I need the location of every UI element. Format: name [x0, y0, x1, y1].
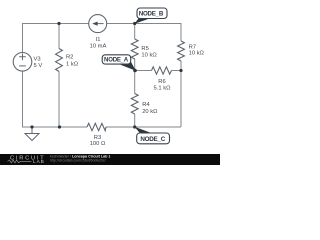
svg-text:NODE_A: NODE_A: [104, 57, 129, 64]
junction bottom R2 tap: [58, 125, 61, 128]
wire R2 branch bottom lead: [58, 72, 60, 128]
svg-text:LAB: LAB: [33, 159, 45, 165]
wire top from I1 to R7 branch: [107, 23, 181, 25]
footer bar: [0, 154, 220, 165]
svg-text:R7: R7: [189, 44, 196, 50]
svg-text:5.1 kΩ: 5.1 kΩ: [154, 86, 172, 92]
label R2 1 kOhm: [66, 54, 79, 67]
svg-text:10 mA: 10 mA: [90, 44, 107, 50]
label V3 5 V: [34, 56, 43, 69]
svg-text:R4: R4: [142, 102, 150, 108]
wire R7 to junction and down to bottom: [180, 61, 182, 127]
node A flag: [102, 55, 136, 71]
svg-text:10 kΩ: 10 kΩ: [189, 51, 205, 57]
label R6 5.1 kOhm: [154, 79, 172, 92]
wire left branch V3 top lead: [22, 23, 24, 52]
svg-text:R2: R2: [66, 54, 73, 60]
junction node B tap: [133, 22, 136, 25]
svg-text:100 Ω: 100 Ω: [90, 141, 106, 147]
wire R4 top lead: [134, 71, 136, 94]
svg-text:10 kΩ: 10 kΩ: [141, 52, 157, 58]
svg-text:1 kΩ: 1 kΩ: [66, 61, 79, 67]
svg-text:NODE_B: NODE_B: [139, 11, 164, 18]
svg-text:R6: R6: [158, 79, 165, 85]
resistor R6: [152, 67, 172, 74]
wire R2 branch top lead: [58, 24, 60, 49]
wire R4 bottom lead: [134, 114, 136, 127]
junction R6-R7: [179, 69, 182, 72]
svg-text:20 kΩ: 20 kΩ: [142, 109, 158, 115]
node B flag: [135, 8, 168, 24]
node C flag: [135, 127, 170, 144]
label R7 10 kOhm: [189, 44, 205, 56]
junction dot top R2 tap: [57, 22, 60, 25]
wire R5 to node A junction: [134, 59, 136, 71]
wire left branch V3 bottom lead: [22, 71, 24, 127]
wire top from V3 to I1: [23, 23, 89, 25]
label I1 10 mA: [90, 37, 107, 49]
svg-text:5 V: 5 V: [34, 63, 43, 69]
resistor R4: [131, 94, 138, 115]
wire bottom from V3 to R3: [22, 126, 87, 128]
label R4 20 kOhm: [142, 102, 158, 115]
svg-text:I1: I1: [96, 37, 101, 43]
footer attribution text: [50, 155, 110, 163]
wire R5 branch top lead: [134, 24, 136, 40]
footer circuitlab logo: [8, 156, 46, 166]
wire bottom from R3 to R7 branch: [106, 126, 181, 128]
resistor R5: [131, 39, 138, 59]
junction node A: [133, 69, 137, 73]
svg-text:NODE_C: NODE_C: [140, 136, 165, 143]
voltage source V3: [13, 53, 32, 72]
ground: [25, 127, 39, 141]
svg-text:R5: R5: [141, 46, 148, 52]
resistor R3: [87, 123, 106, 130]
wire R6 left lead: [135, 70, 152, 72]
resistor R7: [178, 41, 185, 61]
svg-text:V3: V3: [34, 56, 41, 62]
wire R7 branch top lead: [180, 23, 182, 41]
junction node C tap: [133, 125, 136, 128]
svg-text:R3: R3: [94, 135, 101, 141]
junction ground tap: [30, 125, 33, 128]
wire R6 right lead: [172, 70, 182, 72]
current source I1: [89, 15, 107, 33]
resistor R2: [56, 49, 63, 72]
label R5 10 kOhm: [141, 46, 157, 58]
label R3 100 Ohm: [90, 135, 106, 147]
svg-text:http://circuitlab.com/c56uf/6n: http://circuitlab.com/c56uf/6ndw29c/: [50, 159, 106, 163]
